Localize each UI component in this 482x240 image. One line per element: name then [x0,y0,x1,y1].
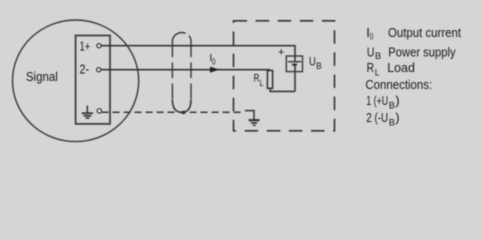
svg-text:R: R [367,60,374,75]
terminal 2 [97,68,101,72]
svg-text:): ) [395,110,399,125]
shield junction dot [182,111,186,114]
svg-text:2-: 2- [80,61,90,76]
svg-text:B: B [316,61,322,72]
shield bottom arc [172,100,191,113]
wire 2- to load [101,69,270,71]
signal source circle [13,20,139,142]
shield left side [171,42,173,100]
svg-text:B: B [389,100,395,111]
svg-text:Connections:: Connections: [365,77,432,92]
shield ground line (dashed) [102,111,242,113]
svg-text:U: U [367,44,375,59]
current arrow I0 [210,67,219,73]
shield top arc [172,33,185,42]
svg-text:0: 0 [370,32,374,43]
svg-text:0: 0 [212,58,216,67]
svg-text:+: + [278,47,284,59]
svg-text:B: B [375,51,381,62]
svg-text:1 (+U: 1 (+U [366,93,388,108]
svg-text:B: B [389,117,395,128]
terminal 1 [97,44,101,48]
power supply UB (battery in box) [286,56,302,91]
terminal 3 (shield) [97,109,101,113]
svg-text:U: U [309,56,316,68]
transmitter case ground [82,106,93,118]
svg-text:1+: 1+ [80,38,91,53]
wire load to battery [270,88,295,91]
wire 1+ to battery [101,46,295,62]
svg-text:Load: Load [387,60,415,75]
svg-text:Signal: Signal [26,69,58,84]
legend [365,25,461,128]
svg-text:Output current: Output current [388,25,461,40]
terminal block [76,36,110,124]
svg-text:2 (-U: 2 (-U [366,110,388,125]
cable shield (dashed stadium) [172,33,191,113]
load resistor RL [267,71,272,89]
svg-text:L: L [260,78,264,88]
receiver ground [245,111,260,126]
svg-text:): ) [395,93,399,108]
svg-text:Power supply: Power supply [388,44,456,59]
shield right side [190,42,192,100]
receiver dashed box [234,21,335,131]
